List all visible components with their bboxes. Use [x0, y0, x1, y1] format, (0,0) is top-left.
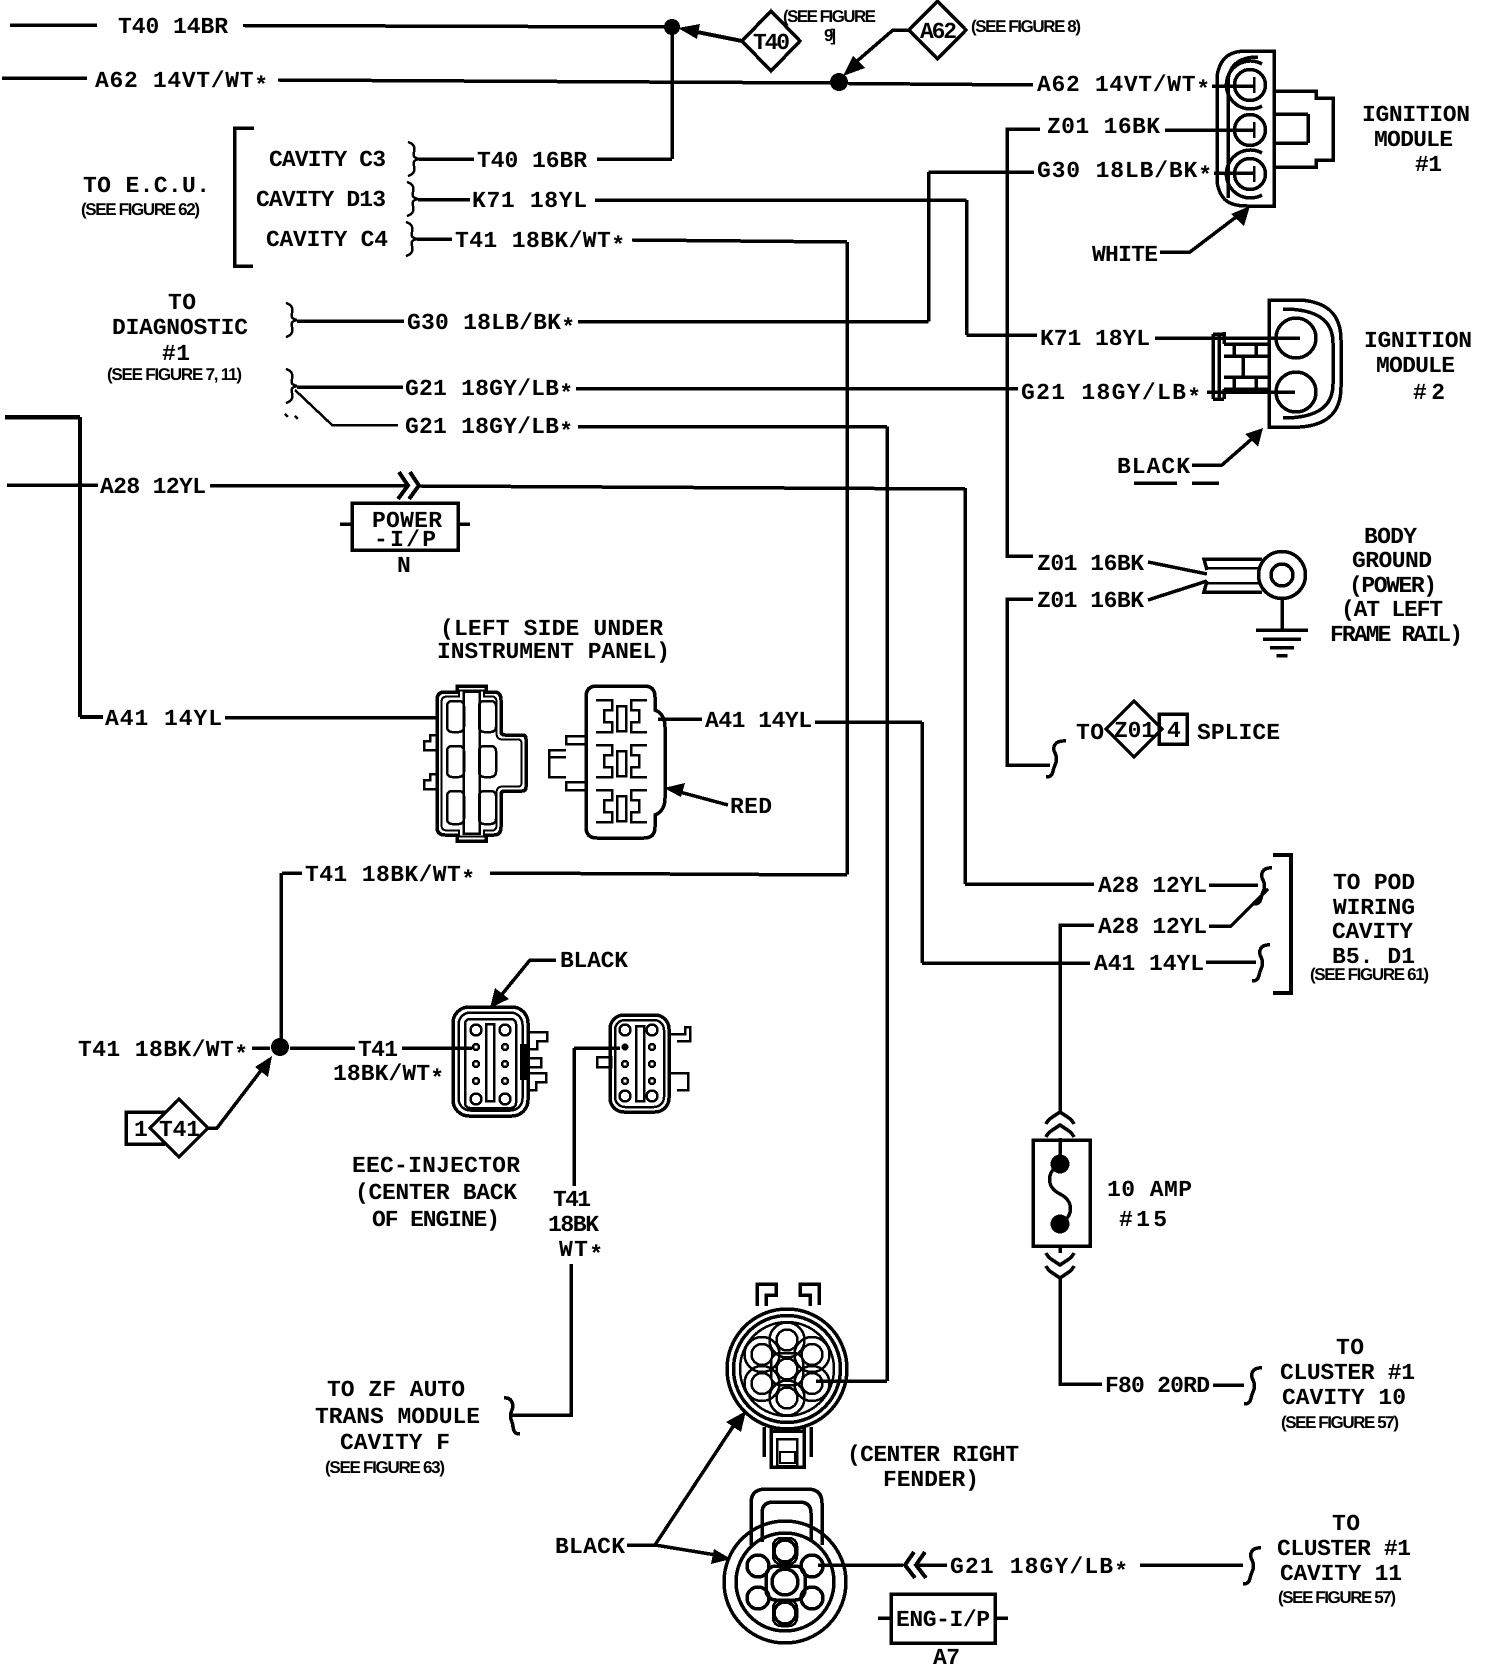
wire Z01 corner from label	[1007, 129, 1040, 556]
svg-text:F80 20RD: F80 20RD	[1105, 1373, 1210, 1399]
svg-text:(SEE FIGURE 62): (SEE FIGURE 62)	[81, 200, 200, 219]
brace ZF trans cavity F	[504, 1398, 520, 1434]
svg-text:T41: T41	[358, 1037, 398, 1063]
svg-text:TO: TO	[1076, 720, 1104, 746]
wire T40 16BR to junction drop	[597, 157, 672, 161]
svg-text:18BK: 18BK	[548, 1212, 599, 1238]
wire A41 pod row to brace	[1206, 960, 1256, 964]
label TO DIAGNOSTIC #1	[107, 290, 248, 384]
svg-text:(SEE FIGURE 63): (SEE FIGURE 63)	[325, 1458, 445, 1477]
svg-text:K71 18YL: K71 18YL	[472, 188, 587, 214]
label wire T41 18BK/WT* at injector	[333, 1037, 444, 1092]
wire A28 12YL top-left corner	[5, 415, 80, 420]
svg-text:A28 12YL: A28 12YL	[100, 474, 206, 500]
svg-text:CAVITY D13: CAVITY D13	[256, 187, 386, 213]
svg-text:BODY: BODY	[1364, 524, 1417, 550]
svg-text:TO: TO	[1332, 1511, 1360, 1537]
svg-text:T40 16BR: T40 16BR	[477, 148, 587, 174]
svg-text:IGNITION: IGNITION	[1362, 102, 1470, 128]
svg-text:G30 18LB/BK*: G30 18LB/BK*	[1037, 158, 1212, 189]
wire cavity C3 to T40 16BR	[419, 157, 474, 161]
wire T41 junction to label	[290, 1046, 355, 1050]
svg-text:(SEE FIGURE 8): (SEE FIGURE 8)	[971, 17, 1081, 36]
svg-text:CLUSTER #1: CLUSTER #1	[1277, 1536, 1411, 1562]
svg-text:DIAGNOSTIC: DIAGNOSTIC	[112, 315, 248, 341]
svg-text:A62 14VT/WT*: A62 14VT/WT*	[1037, 72, 1210, 103]
wire A62 junction to right label	[848, 84, 1033, 86]
connector EEC-injector secondary (right)	[597, 1015, 690, 1112]
svg-text:MODULE: MODULE	[1374, 127, 1453, 153]
wire G21 right label to module 2 pin 2	[1207, 390, 1295, 394]
svg-text:#1: #1	[1415, 152, 1442, 178]
svg-text:(SEE FIGURE 61): (SEE FIGURE 61)	[1310, 965, 1429, 984]
wire K71 vertical drop	[965, 200, 969, 335]
wire T40 14BR to junction	[243, 26, 670, 28]
wire A28 to right vertical	[420, 486, 965, 489]
svg-text:CAVITY 11: CAVITY 11	[1280, 1561, 1402, 1587]
svg-text:T41 18BK/WT*: T41 18BK/WT*	[305, 862, 475, 893]
svg-text:Z01 16BK: Z01 16BK	[1037, 588, 1144, 614]
svg-text:TO: TO	[1336, 1335, 1364, 1361]
svg-text:RED: RED	[730, 794, 772, 820]
svg-text:T40: T40	[753, 30, 790, 56]
label (LEFT SIDE UNDER INSTRUMENT PANEL)	[437, 616, 670, 665]
wire Z01 upper into ring terminal	[1148, 562, 1207, 574]
svg-text:Z01 16BK: Z01 16BK	[1037, 551, 1144, 577]
svg-text:(SEE FIGURE 57): (SEE FIGURE 57)	[1278, 1588, 1396, 1607]
wire T40 14BR left stub	[10, 23, 97, 27]
svg-text:(POWER): (POWER)	[1349, 573, 1437, 599]
svg-text:G21 18GY/LB*: G21 18GY/LB*	[950, 1554, 1128, 1585]
svg-text:WHITE: WHITE	[1092, 242, 1158, 268]
ground symbol at left frame rail	[1256, 598, 1308, 656]
wire A28 label to inline connector	[210, 484, 406, 488]
wire into fuse top	[1058, 1138, 1062, 1160]
svg-text:BLACK: BLACK	[560, 948, 628, 974]
wire K71 to right label	[967, 333, 1038, 337]
svg-text:TO: TO	[168, 290, 196, 316]
connector IP harness male (left)	[424, 686, 526, 841]
wire G30 across	[578, 320, 929, 324]
svg-text:SPLICE: SPLICE	[1197, 720, 1280, 746]
wire T41 into EEC connector 2 pin	[574, 1046, 620, 1050]
wire G21 from round connector	[818, 1563, 903, 1567]
label BLACK with arrow to module 2	[1117, 428, 1263, 483]
svg-text:A62: A62	[920, 19, 957, 45]
svg-text:(CENTER BACK: (CENTER BACK	[355, 1180, 517, 1206]
wire G21 row2 vertical down to fender connector	[885, 427, 889, 1382]
svg-text:Z01 16BK: Z01 16BK	[1047, 114, 1160, 140]
svg-text:CAVITY C3: CAVITY C3	[269, 147, 386, 173]
wire Z01 label to module 1 pin 2	[1165, 128, 1253, 132]
svg-text:CAVITY: CAVITY	[1332, 919, 1413, 945]
svg-text:10 AMP: 10 AMP	[1107, 1177, 1192, 1203]
wire G21 bottom to brace	[1140, 1563, 1243, 1567]
svg-text:EEC-INJECTOR: EEC-INJECTOR	[352, 1153, 520, 1179]
connector ignition module 1	[1217, 51, 1333, 206]
svg-text:K71 18YL: K71 18YL	[1040, 326, 1150, 352]
connector round 6-pin with handle	[724, 1489, 846, 1643]
connector IP harness female (right)	[549, 686, 665, 838]
connector round 7-pin center right fender	[727, 1284, 847, 1467]
brace cavity C4	[406, 222, 417, 256]
svg-text:TO ZF AUTO: TO ZF AUTO	[327, 1377, 465, 1403]
wire A41 label to IP connector	[225, 716, 437, 720]
wire T40 junction drop to cavity C3	[670, 27, 674, 159]
label IGNITION MODULE #1	[1362, 102, 1470, 178]
svg-text:MODULE: MODULE	[1376, 353, 1455, 379]
brace pod cavity B5	[1254, 868, 1272, 904]
wire A62 14VT/WT* left stub	[2, 76, 87, 80]
fuse 10 AMP #15	[1033, 1140, 1090, 1246]
node junction A62	[830, 73, 848, 91]
wire cavity D13 to K71 18YL	[418, 198, 470, 202]
connector symbol T40 (see figure 9)	[678, 7, 876, 71]
svg-text:Z01: Z01	[1114, 718, 1155, 744]
bracket pod wiring	[1273, 855, 1291, 993]
brace diagnostic G30	[286, 303, 297, 337]
svg-text:WT*: WT*	[559, 1237, 603, 1268]
svg-text:TO POD: TO POD	[1333, 870, 1415, 896]
label IGNITION MODULE #2	[1364, 328, 1472, 406]
node junction T41	[271, 1038, 289, 1056]
wire A28 right vertical down	[963, 488, 967, 884]
svg-text:A7: A7	[933, 1645, 960, 1668]
connector symbol inline bullet above fuse	[1046, 1112, 1074, 1137]
wire T41 18BK/WT* across	[632, 240, 847, 242]
label EEC-INJECTOR (CENTER BACK OF ENGINE)	[352, 1153, 520, 1233]
svg-text:(SEE FIGURE 7, 11): (SEE FIGURE 7, 11)	[107, 365, 242, 384]
connector symbol A62 (see figure 8)	[843, 1, 1081, 76]
wire A41 connector to right label	[658, 717, 702, 721]
wire A62 label to ignition module 1 pin 1	[1212, 84, 1253, 88]
svg-text:CLUSTER #1: CLUSTER #1	[1280, 1360, 1415, 1386]
svg-text:FRAME RAIL): FRAME RAIL)	[1330, 622, 1463, 648]
component POWER-I/P fuse block tag	[340, 503, 470, 579]
wire Z01 lower corner to splice drop	[1007, 599, 1050, 765]
svg-text:BLACK: BLACK	[555, 1534, 625, 1560]
connector symbol inline >> on A28	[398, 472, 419, 499]
label wire T41 18BK WT* drop	[548, 1187, 603, 1268]
svg-text:A62 14VT/WT*: A62 14VT/WT*	[95, 68, 268, 99]
brace cavity C3	[408, 142, 419, 176]
svg-text:T41 18BK/WT*: T41 18BK/WT*	[78, 1037, 248, 1068]
wire << to G21 label	[918, 1563, 947, 1567]
svg-text:A41 14YL: A41 14YL	[705, 708, 812, 734]
label wire T41 18BK/WT* upper branch	[282, 862, 847, 893]
wire A62 to junction	[278, 80, 834, 83]
wire A28 12YL pod row 2 corner	[1060, 925, 1094, 1112]
svg-text:T41: T41	[553, 1187, 591, 1213]
label BLACK with arrows to fender connectors	[555, 1411, 746, 1564]
wire A41 vertical to pod row	[920, 722, 924, 963]
svg-text:(AT LEFT: (AT LEFT	[1341, 597, 1443, 623]
label (CENTER RIGHT FENDER)	[847, 1442, 1019, 1493]
brace cavity D13	[407, 182, 418, 216]
svg-text:9]: 9]	[824, 26, 836, 45]
wire G21 row2 across	[578, 425, 887, 429]
wire G21 row1 brace to label	[297, 385, 403, 389]
wire T41 vertical to ZF trans row	[512, 1264, 571, 1415]
svg-text:T41: T41	[159, 1117, 200, 1143]
svg-text:1: 1	[134, 1117, 148, 1143]
connector symbol Z01 splice diamond	[1106, 701, 1187, 757]
wire A41 14YL corner from trunk	[80, 715, 103, 719]
svg-text:IGNITION: IGNITION	[1364, 328, 1472, 354]
svg-text:A41 14YL: A41 14YL	[1094, 951, 1204, 977]
svg-text:#2: #2	[1413, 380, 1445, 406]
wire fuse bottom to F80 corner	[1060, 1246, 1102, 1384]
wire T41 vertical down right side	[845, 242, 849, 875]
wire A28 pod row 2 diagonal to brace	[1209, 889, 1268, 926]
label TO CLUSTER #1 CAVITY 11	[1277, 1511, 1411, 1607]
wire A28 12YL left stub	[7, 483, 98, 487]
brace diagnostic G21	[286, 369, 297, 403]
connector EEC-injector main (left)	[453, 1007, 547, 1116]
brace pod cavity D1	[1252, 945, 1270, 981]
wire A41 right label to pod drop	[815, 720, 922, 724]
wire T41 left stub to junction	[252, 1046, 270, 1050]
svg-text:OF ENGINE): OF ENGINE)	[372, 1207, 500, 1233]
svg-text:GROUND: GROUND	[1352, 548, 1432, 574]
svg-text:INSTRUMENT PANEL): INSTRUMENT PANEL)	[437, 639, 670, 665]
label TO CLUSTER #1 CAVITY 10	[1280, 1335, 1415, 1432]
svg-text:TRANS MODULE: TRANS MODULE	[315, 1404, 480, 1430]
svg-text:BLACK: BLACK	[1117, 454, 1190, 480]
connector symbol 1-T41 diamond	[126, 1056, 272, 1157]
wire F80 to brace	[1213, 1383, 1244, 1387]
wire G30 brace to label	[297, 319, 404, 323]
svg-text:G21 18GY/LB*: G21 18GY/LB*	[405, 376, 573, 407]
svg-text:FENDER): FENDER)	[883, 1467, 979, 1493]
label TO ZF AUTO TRANS MODULE CAVITY F	[315, 1377, 480, 1477]
svg-text:4: 4	[1167, 718, 1181, 744]
wire G21 row1 across	[576, 387, 1018, 391]
svg-text:WIRING: WIRING	[1333, 895, 1415, 921]
svg-text:A28 12YL: A28 12YL	[1098, 873, 1207, 899]
label WHITE with arrow to module 1	[1092, 206, 1250, 268]
svg-text:#1: #1	[162, 341, 190, 367]
connector symbol inline bullet below fuse	[1046, 1253, 1074, 1278]
svg-text:(CENTER RIGHT: (CENTER RIGHT	[847, 1442, 1019, 1468]
label BLACK with arrow to EEC connector	[490, 948, 628, 1008]
ring terminal body ground	[1204, 552, 1306, 599]
label BODY GROUND (POWER) (AT LEFT FRAME RAIL)	[1330, 524, 1463, 648]
svg-text:A41 14YL: A41 14YL	[105, 706, 222, 732]
svg-text:G21 18GY/LB*: G21 18GY/LB*	[405, 414, 573, 445]
wire T41 label to EEC connector pin	[402, 1046, 472, 1050]
wire G30 vertical up	[927, 172, 931, 322]
wire vertical left trunk	[78, 417, 82, 717]
svg-text:T40 14BR: T40 14BR	[118, 14, 228, 40]
wire cavity C4 to T41 18BK/WT*	[417, 237, 452, 241]
brace cluster cavity 10	[1244, 1368, 1262, 1404]
wire K71 right label to module 2 pin 1	[1155, 336, 1300, 340]
svg-text:(SEE FIGURE 57): (SEE FIGURE 57)	[1281, 1413, 1399, 1432]
wire A28 pod row 1 from vertical	[965, 882, 1094, 886]
svg-text:A28 12YL: A28 12YL	[1098, 914, 1207, 940]
connector symbol inline << on G21	[905, 1552, 926, 1578]
wire diagonal brace to G21 row2	[295, 390, 398, 425]
svg-text:CAVITY F: CAVITY F	[340, 1430, 450, 1456]
wire T41 vertical from EEC connector 2	[572, 1048, 576, 1186]
label 10 AMP #15	[1107, 1177, 1192, 1233]
svg-text:CAVITY C4: CAVITY C4	[266, 227, 388, 253]
brace cluster cavity 11	[1243, 1548, 1261, 1584]
wire A28 pod row 1 to brace	[1209, 883, 1258, 887]
svg-text:18BK/WT*: 18BK/WT*	[333, 1061, 444, 1092]
node junction T40	[664, 19, 680, 35]
wire A41 pod row from vertical	[922, 961, 1090, 965]
svg-text:G21 18GY/LB*: G21 18GY/LB*	[1021, 380, 1201, 411]
connector ignition module 2	[1213, 300, 1341, 427]
node dots under diagnostic brace	[285, 414, 298, 419]
svg-text:#15: #15	[1119, 1207, 1167, 1233]
svg-text:(SEE FIGURE: (SEE FIGURE	[783, 7, 876, 26]
bracket TO E.C.U.	[235, 128, 255, 266]
svg-text:CAVITY 10: CAVITY 10	[1282, 1385, 1406, 1411]
wire G30 to right label	[929, 170, 1035, 174]
svg-text:N: N	[397, 553, 411, 579]
svg-text:G30 18LB/BK*: G30 18LB/BK*	[407, 310, 575, 341]
wire G30 right label to module 1 pin 3	[1214, 171, 1253, 175]
label RED with arrow to connector	[664, 783, 772, 820]
wire G21 row2 into round connector 1	[816, 1379, 887, 1383]
wire Z01 lower into ring terminal	[1148, 581, 1207, 600]
svg-text:ENG-I/P: ENG-I/P	[896, 1607, 990, 1633]
label TO POD WIRING CAVITY B5. D1	[1310, 870, 1429, 984]
wire T41 vertical branch to junction	[279, 873, 283, 1039]
svg-text:TO E.C.U.: TO E.C.U.	[83, 173, 210, 199]
svg-text:T41 18BK/WT*: T41 18BK/WT*	[455, 228, 625, 259]
brace splice lead	[1046, 741, 1066, 777]
component ENG-I/P tag	[878, 1594, 1008, 1668]
wire K71 18YL across	[595, 198, 967, 202]
